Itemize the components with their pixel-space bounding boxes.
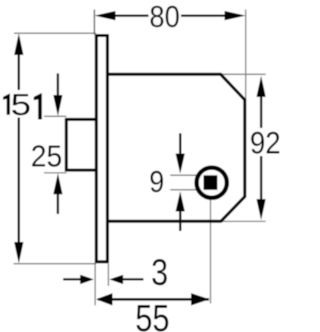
dimension 55 right arrow	[191, 293, 210, 305]
svg-text:92: 92	[250, 124, 281, 160]
extension line top-left (151 top)	[14, 32, 96, 34]
svg-text:25: 25	[31, 138, 63, 173]
lock body outline	[106, 74, 245, 221]
faceplate	[96, 36, 107, 262]
extension line 9 bottom	[170, 189, 204, 191]
dimension 92 bottom segment + arrow	[260, 156, 262, 202]
extension line 25 bottom	[44, 172, 67, 174]
dimension 151 line bottom segment with down arrow	[18, 118, 20, 249]
svg-text:9: 9	[149, 164, 164, 199]
extension line 80 left vertical	[93, 10, 95, 35]
dimension 80 left arrow + segment	[112, 14, 149, 16]
dimension 25 bottom arrow	[57, 192, 59, 214]
left box (strike recess)	[66, 119, 97, 170]
dimension 3 right arrow	[122, 278, 144, 280]
dimension 55 left arrow	[96, 293, 113, 305]
dimension 9 bottom arrow	[179, 209, 181, 231]
dimension 3 left arrow	[63, 278, 82, 280]
dimension 151 line top segment with up arrow	[18, 50, 20, 90]
extension line 92 bottom	[221, 220, 266, 222]
spindle hole circle	[197, 168, 227, 198]
extension line 9 top	[170, 174, 204, 176]
dimension 9 top arrow	[179, 133, 181, 156]
dimension 25 top arrow	[57, 73, 59, 98]
extension line 25 top	[44, 115, 67, 117]
svg-text:3: 3	[151, 251, 168, 293]
extension line 3 right vertical	[107, 264, 109, 286]
extension line 3/55 left vertical	[94, 264, 96, 306]
label 151 (large final digit 1, drawn)	[34, 93, 42, 120]
svg-text:5: 5	[11, 88, 32, 122]
dimension 55 line	[98, 298, 209, 301]
extension line bottom-left (151 bottom)	[14, 263, 97, 265]
svg-text:55: 55	[135, 298, 169, 332]
extension line 55 center vertical	[210, 183, 212, 304]
extension line 92 top	[221, 73, 266, 75]
dimension 92 top arrow + segment	[260, 94, 262, 128]
dimension 80 right segment + arrow	[181, 14, 228, 16]
extension line 80 right vertical	[245, 10, 247, 100]
svg-text:80: 80	[149, 0, 179, 34]
label 151 (first digit 1, drawn)	[3, 93, 10, 114]
spindle square	[204, 175, 218, 190]
